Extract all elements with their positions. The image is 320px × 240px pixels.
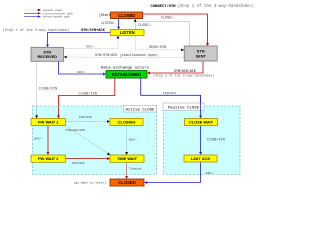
svg-text:Data exchange occurs: Data exchange occurs xyxy=(101,66,150,71)
legend unusual event xyxy=(24,9,63,12)
wire into CLOSE WAIT blue arrowhead xyxy=(199,95,202,118)
wire CLOSED to SYN SENT (CONNECT/SYN) xyxy=(143,4,253,46)
svg-text:server/sender path: server/sender path xyxy=(43,16,71,19)
svg-text:ESTABLISHED: ESTABLISHED xyxy=(112,72,141,77)
wire ESTABLISHED to CLOSE WAIT (FIN/ACK) xyxy=(141,78,201,116)
svg-text:TIME WAIT: TIME WAIT xyxy=(117,156,138,161)
svg-text:(Step 1 of the 3-way-handshake: (Step 1 of the 3-way-handshake) xyxy=(177,4,253,9)
svg-text:(Step 2 of the 3-way-handshake: (Step 2 of the 3-way-handshake) xyxy=(3,28,70,33)
svg-text:CLOSED: CLOSED xyxy=(118,13,135,18)
svg-text:SYN+ACK/ACK: SYN+ACK/ACK xyxy=(174,69,196,73)
svg-text:SYN: SYN xyxy=(43,50,51,54)
svg-text:SYN/SYN+ACK (simultaneous open: SYN/SYN+ACK (simultaneous open) xyxy=(95,53,158,58)
svg-text:CLOSE/FIN: CLOSE/FIN xyxy=(79,92,97,97)
svg-text:SENT: SENT xyxy=(196,54,207,58)
state LISTEN xyxy=(111,30,145,36)
wire SYN RECEIVED to FIN WAIT 1 (CLOSE/FIN) xyxy=(37,61,58,106)
svg-text:SYN/SYN+ACK: SYN/SYN+ACK xyxy=(81,28,106,33)
svg-text:Passive CLOSE: Passive CLOSE xyxy=(168,106,200,111)
svg-text:CONNECT/SYN: CONNECT/SYN xyxy=(151,4,177,9)
wire CLOSING to TIME WAIT (ACK/-) xyxy=(125,126,138,155)
wire SYN SENT to SYN RECEIVED (simultaneous open) xyxy=(64,53,185,58)
wire CLOSED to LISTEN (LISTEN/-) xyxy=(101,19,120,30)
svg-text:client/receiver path: client/receiver path xyxy=(43,12,74,15)
wire FIN WAIT 1 to CLOSING (FIN/ACK) xyxy=(66,115,110,123)
wire TIME WAIT to CLOSED (Timeout) xyxy=(125,163,142,179)
wire ESTABLISHED to FIN WAIT 1 (CLOSE/FIN) xyxy=(59,78,115,116)
svg-text:CLOSE/-: CLOSE/- xyxy=(161,16,175,21)
svg-text:FIN/ACK: FIN/ACK xyxy=(163,91,176,95)
wire FIN WAIT 2 to TIME WAIT (FIN/ACK) xyxy=(66,157,110,165)
wire FIN WAIT 1 to FIN WAIT 2 (ACK/-) xyxy=(34,126,50,155)
svg-text:SEND/SYN: SEND/SYN xyxy=(149,45,166,50)
wire LISTEN to CLOSED (CLOSE/-) xyxy=(134,19,153,30)
region Active CLOSE xyxy=(33,106,157,175)
svg-text:LISTEN: LISTEN xyxy=(120,30,135,35)
svg-text:CLOSE/-: CLOSE/- xyxy=(138,23,152,28)
legend server/sender path xyxy=(24,15,71,18)
svg-text:SYN: SYN xyxy=(197,49,205,53)
wire LAST ACK to CLOSED (ACK/-) xyxy=(144,162,215,184)
wire SYN SENT to CLOSED (CLOSE/-) xyxy=(136,16,189,46)
wire SYN SENT to ESTABLISHED (SYN+ACK/ACK) xyxy=(147,61,214,77)
wire into FIN WAIT 1 black dashed arrowhead xyxy=(35,107,38,119)
svg-text:CLOSE WAIT: CLOSE WAIT xyxy=(189,119,214,124)
state CLOSED (bottom) xyxy=(110,179,144,186)
svg-text:LAST ACK: LAST ACK xyxy=(191,156,211,161)
wire LISTEN to SYN RECEIVED (SYN/SYN+ACK) xyxy=(3,28,111,47)
state SYN RECEIVED xyxy=(31,47,64,61)
svg-text:LISTEN/-: LISTEN/- xyxy=(101,21,116,25)
wire CLOSE WAIT to LAST ACK (CLOSE/FIN) xyxy=(199,126,225,155)
state LAST ACK xyxy=(184,155,217,162)
svg-text:RECEIVED: RECEIVED xyxy=(38,55,58,59)
region Passive CLOSE xyxy=(164,106,241,175)
svg-text:FIN WAIT 1: FIN WAIT 1 xyxy=(38,119,59,124)
state SYN SENT xyxy=(184,46,217,61)
state FIN WAIT 1 xyxy=(31,119,66,126)
wire into FIN WAIT 1 red arrowhead xyxy=(57,107,60,119)
svg-text:CLOSE/FIN: CLOSE/FIN xyxy=(207,137,225,141)
svg-text:CLOSING: CLOSING xyxy=(118,119,136,124)
svg-text:(Step 3 of the 3-way handshake: (Step 3 of the 3-way handshake) xyxy=(153,73,214,77)
state ESTABLISHED xyxy=(106,71,147,79)
svg-text:CLOSE/FIN: CLOSE/FIN xyxy=(39,87,57,92)
wire SYN RECEIVED to ESTABLISHED (ACK/-) xyxy=(59,61,107,75)
wire FIN WAIT 1 to TIME WAIT (FIN+ACK/ACK) xyxy=(66,126,111,155)
svg-text:FIN WAIT 2: FIN WAIT 2 xyxy=(38,156,59,161)
svg-text:CLOSED: CLOSED xyxy=(118,180,135,185)
wire SYN RECEIVED to LISTEN (RST/-) xyxy=(64,36,120,49)
state CLOSE WAIT xyxy=(185,119,218,126)
state CLOSING xyxy=(110,119,143,126)
label box Active CLOSE xyxy=(124,105,157,112)
wire LISTEN to SYN SENT (SEND/SYN) xyxy=(136,36,185,52)
legend client/receiver path xyxy=(24,12,74,15)
label box Passive CLOSE xyxy=(163,103,204,111)
state CLOSED (top) xyxy=(111,12,143,19)
svg-text:unusual event: unusual event xyxy=(43,9,63,12)
state FIN WAIT 2 xyxy=(31,155,66,162)
svg-text:Active CLOSE: Active CLOSE xyxy=(126,107,155,112)
state TIME WAIT xyxy=(110,155,144,162)
